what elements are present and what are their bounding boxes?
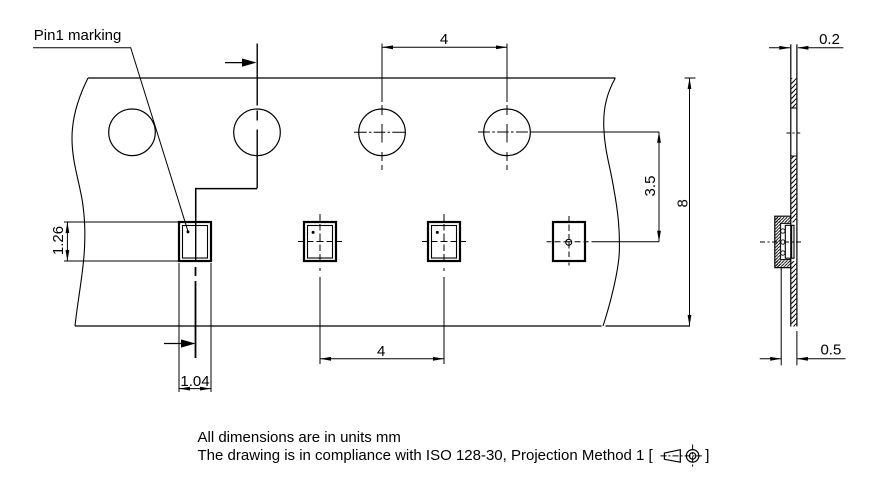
dimension 1.26: line (66, 222, 68, 261)
feed direction arrow bottom (164, 339, 196, 347)
extension line H3 vertical (381, 44, 383, 171)
dimension 0.5: line left part with arrow (760, 357, 782, 361)
dimension 1.04: line (179, 388, 211, 390)
side view pocket bump outline (775, 216, 791, 267)
svg-text:All dimensions are in units mm: All dimensions are in units mm (198, 429, 401, 446)
dimension 0.5: extension lines (781, 267, 797, 365)
sprocket hole H3 (359, 109, 406, 156)
dimension 8: top arrow (688, 78, 692, 89)
dimension 3.5: top arrow (657, 132, 661, 143)
tape left break line (72, 78, 88, 326)
svg-text:4: 4 (440, 31, 448, 48)
dimension 3.5: label (642, 176, 659, 197)
dimension 1.04: extension lines (179, 263, 211, 392)
centerline H3 horizontal (354, 131, 408, 133)
side view hatch below hole (791, 156, 796, 222)
sprocket hole H4 (484, 109, 531, 156)
Pin1 leader line (33, 48, 188, 232)
dimension 4 top: line (382, 46, 507, 48)
dimension 0.2: label (819, 31, 840, 48)
svg-text:4: 4 (377, 343, 385, 360)
centerline P3 vertical (443, 214, 445, 272)
centerline P4 vertical (568, 216, 570, 267)
side view pocket centerline (760, 241, 802, 243)
pocket P1 vertical reference line (195, 188, 197, 262)
centerline H4 horizontal extended to 3.5 dim (478, 131, 659, 133)
tape right break line (603, 78, 619, 326)
svg-text:Pin1 marking: Pin1 marking (34, 27, 122, 44)
dimension 8: label (674, 199, 691, 207)
projection symbol centerline horizontal (661, 455, 702, 457)
centerline P3 horizontal (422, 241, 466, 243)
side view bump hatch bottom band (775, 260, 790, 267)
dimension 0.5: label (820, 342, 841, 359)
extension line H4 vertical (506, 44, 508, 171)
svg-text:The drawing is in compliance w: The drawing is in compliance with ISO 12… (198, 447, 654, 464)
tape bottom edge (75, 325, 602, 327)
pocket P2 outer (304, 222, 336, 261)
centerline P2 vertical (319, 214, 321, 272)
feed direction arrow top (225, 59, 257, 67)
side view hatch below pocket (791, 261, 796, 326)
reference jog line from H2 to P1 (196, 189, 258, 222)
dimension 4 bottom: left arrow (320, 357, 331, 361)
dimension 4 top: right arrow (496, 45, 507, 49)
pocket P4 center hole (566, 239, 572, 245)
pocket P2 inner (308, 226, 333, 259)
dimension 1.26: extension lines (64, 222, 178, 261)
pocket P3 inner (432, 226, 457, 259)
svg-text:3.5: 3.5 (642, 176, 659, 197)
side view hatch above hole (791, 78, 796, 108)
dimension 8: bottom arrow (688, 315, 692, 326)
side view pocket ribs (781, 229, 785, 255)
svg-text:]: ] (705, 447, 709, 464)
centerline P2 horizontal (298, 241, 342, 243)
pocket P1 inner (183, 226, 208, 259)
dimension 1.26: bottom arrow (66, 250, 70, 261)
side view bump hatch top band (775, 217, 790, 223)
pocket P2 pin1 dot (312, 231, 315, 234)
dimension 4 bottom: line (320, 358, 444, 360)
side view pocket cavity outline (781, 223, 791, 259)
note line 2 closing bracket (705, 447, 709, 464)
dimension 8: line (689, 78, 691, 326)
dimension 1.04: left arrow (179, 387, 190, 391)
dimension 1.26: top arrow (66, 222, 70, 233)
centerline P4 horizontal extended to 3.5 dim (547, 241, 660, 243)
dimension 3.5: line (658, 132, 660, 242)
sprocket hole H2 (234, 109, 281, 156)
svg-text:8: 8 (674, 199, 691, 207)
projection symbol circles (686, 450, 699, 463)
dimension 1.04: label (180, 373, 209, 390)
svg-text:0.5: 0.5 (820, 342, 841, 359)
feed reference line through H2 (256, 44, 258, 189)
extension line P2 down (319, 277, 321, 364)
svg-text:0.2: 0.2 (819, 31, 840, 48)
Pin1 marking label (34, 27, 122, 44)
pocket P4 outer (553, 222, 585, 261)
pocket P3 pin1 dot (436, 231, 439, 234)
tape bottom edge right part / dim 8 extension (606, 325, 691, 327)
pocket P1 outer (179, 222, 211, 261)
side view hole centerline (787, 132, 801, 134)
sprocket hole H1 (109, 109, 156, 156)
side view hole bottom edge (790, 155, 797, 157)
svg-text:1.04: 1.04 (180, 373, 209, 390)
projection symbol centerline vertical (692, 445, 694, 468)
extension stub for dim 8 top (685, 77, 696, 79)
note line 1 (198, 429, 401, 446)
dimension 4 bottom: label (377, 343, 385, 360)
dimension 1.04: right arrow (200, 387, 211, 391)
side view hole top edge (790, 107, 797, 109)
projection symbol cone (664, 450, 680, 463)
extension line P3 down (443, 277, 445, 364)
pocket P1 pin1 dot (187, 230, 190, 233)
centerline P1 below (195, 267, 197, 358)
dimension 3.5: bottom arrow (657, 231, 661, 242)
side view tape surface lines (791, 44, 797, 326)
dimension 0.2: line left part with arrow (769, 46, 790, 50)
dimension 4 top: label (440, 31, 448, 48)
dimension 0.5: line right part with arrow (797, 357, 846, 361)
svg-text:1.26: 1.26 (50, 226, 67, 255)
note line 2 (198, 447, 654, 464)
dimension 4 bottom: right arrow (433, 357, 444, 361)
side view component chip (785, 225, 794, 258)
dimension 1.26: label (50, 226, 67, 255)
dimension 0.2: line right part with arrow (797, 46, 843, 50)
tape top edge (88, 77, 615, 79)
dimension 4 top: left arrow (382, 45, 393, 49)
pocket P3 outer (428, 222, 460, 261)
side view bump hatch left wall (775, 217, 780, 267)
